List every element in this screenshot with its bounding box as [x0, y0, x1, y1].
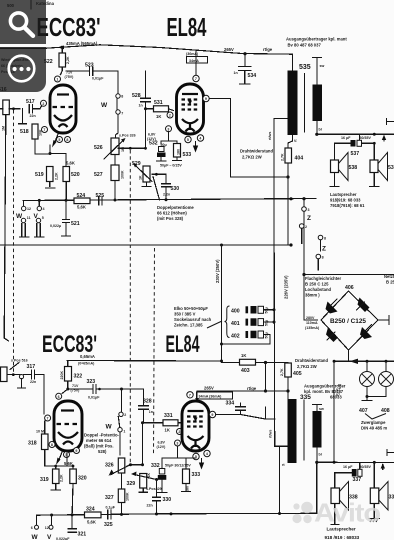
svg-text:8: 8	[66, 138, 68, 142]
svg-text:402: 402	[231, 334, 240, 340]
wire EL84-2 plate feed arrow	[195, 391, 199, 403]
svg-text:321: 321	[78, 532, 87, 538]
resistor 519	[35, 167, 59, 187]
svg-text:Netztr: Netztr	[384, 274, 394, 279]
resistor 527	[94, 165, 125, 200]
svg-text:34mA (36mA): 34mA (36mA)	[199, 395, 223, 399]
wire speaker line bottom y=462.5	[317, 461, 394, 464]
svg-text:4: 4	[43, 207, 45, 211]
svg-text:350 / 385 V: 350 / 385 V	[174, 312, 196, 317]
svg-text:Lochabstand: Lochabstand	[305, 287, 331, 292]
svg-text:50μF – 0/15V: 50μF – 0/15V	[160, 164, 182, 168]
wire 526 wiper node	[118, 147, 147, 150]
svg-text:2,7K: 2,7K	[281, 153, 285, 161]
svg-text:12: 12	[27, 207, 31, 211]
svg-text:1M: 1M	[2, 126, 6, 131]
capacitor C530	[162, 174, 179, 199]
svg-text:12: 12	[45, 526, 49, 530]
svg-text:520: 520	[71, 172, 80, 178]
svg-text:Ausgangsübertrager kpl. mant: Ausgangsübertrager kpl. mant	[286, 37, 347, 42]
svg-text:Zeichn. 17,385: Zeichn. 17,385	[174, 323, 203, 328]
svg-text:405: 405	[293, 371, 302, 377]
svg-text:337: 337	[353, 477, 362, 483]
svg-text:Bv 80 487 68 037: Bv 80 487 68 037	[288, 43, 322, 48]
svg-text:2,2K: 2,2K	[66, 56, 70, 64]
speaker 339 bottom	[369, 462, 394, 522]
svg-text:0,1μF: 0,1μF	[106, 506, 116, 510]
transformer T335 core	[303, 400, 305, 460]
capacitor C401	[231, 318, 276, 327]
svg-text:B250 / C125: B250 / C125	[330, 318, 366, 325]
label 34mA lower boxed	[197, 392, 233, 399]
wire EL84-1 plate feed	[195, 50, 197, 75]
svg-text:W: W	[32, 534, 39, 540]
ECC83-1 cathode arc	[59, 124, 68, 127]
transformer T535 core	[304, 74, 306, 133]
svg-text:2,2n: 2,2n	[163, 193, 170, 197]
svg-text:bl: bl	[319, 128, 322, 132]
main bus wire y=200	[23, 197, 316, 202]
T535 sw terminal	[313, 58, 325, 85]
svg-text:B 250 C 125: B 250 C 125	[305, 282, 329, 287]
arrow up on speaker line	[382, 135, 386, 141]
label 280V rectifier	[305, 316, 320, 330]
svg-text:517: 517	[26, 99, 35, 105]
pin 8 ECC83-1	[65, 137, 71, 143]
svg-text:8: 8	[324, 237, 326, 241]
terminal 12 V bottom	[45, 515, 53, 540]
resistor 520	[63, 161, 80, 201]
capacitor C330	[147, 480, 172, 515]
potentiometer 329	[127, 472, 159, 493]
resistor 319	[40, 466, 64, 490]
svg-text:2: 2	[42, 102, 44, 106]
svg-text:Sockelausruf nach: Sockelausruf nach	[174, 317, 212, 322]
diode D4 lower-right	[360, 325, 372, 340]
label Elko	[174, 306, 222, 328]
svg-text:7: 7	[121, 112, 123, 116]
svg-text:5,6K: 5,6K	[64, 461, 73, 466]
terminal 12 input	[22, 201, 32, 212]
wire 326 node	[129, 463, 143, 466]
pin 2 EL84-1	[167, 112, 173, 118]
svg-text:bl: bl	[319, 453, 322, 457]
svg-text:2: 2	[169, 114, 171, 118]
pin 8 ECC83-2	[49, 442, 55, 448]
svg-text:Ausgangsübertroger: Ausgangsübertroger	[304, 384, 346, 389]
svg-text:2,2K: 2,2K	[60, 474, 64, 482]
svg-text:2,7KΩ 2W: 2,7KΩ 2W	[242, 155, 262, 160]
svg-text:180: 180	[177, 149, 181, 155]
svg-text:317: 317	[27, 364, 36, 370]
T335 bl terminal	[315, 448, 322, 464]
wire AC from mains transformer	[304, 274, 394, 276]
wire plate EL84-1 to transformer	[209, 99, 290, 179]
svg-text:5,6K: 5,6K	[77, 205, 86, 210]
label Flachgleichrichter	[305, 276, 341, 298]
label Zwerglampe	[361, 414, 387, 431]
svg-text:5,6K: 5,6K	[87, 520, 96, 525]
svg-text:1: 1	[123, 430, 125, 434]
resistor 322	[60, 361, 82, 391]
svg-text:527: 527	[94, 172, 103, 178]
resistor 318	[28, 421, 48, 466]
svg-text:334: 334	[226, 401, 235, 407]
svg-text:528: 528	[132, 93, 141, 99]
icon more dots	[9, 56, 35, 82]
svg-text:11: 11	[27, 216, 31, 220]
svg-text:0,022μ: 0,022μ	[50, 224, 61, 228]
wire gang dashed x=154	[154, 248, 155, 455]
resistor 405	[280, 358, 328, 393]
svg-text:5: 5	[187, 138, 189, 142]
svg-text:519: 519	[35, 172, 44, 178]
potentiometer 529	[132, 161, 152, 187]
svg-text:7: 7	[43, 128, 45, 132]
svg-text:220K: 220K	[60, 371, 64, 380]
wire bus y=245	[0, 243, 293, 246]
svg-text:538: 538	[349, 165, 358, 171]
connector stub top right	[387, 119, 394, 125]
capacitor C321	[56, 515, 86, 540]
pin 9 ECC83-2	[74, 448, 80, 454]
ECC83-2 anode bar	[61, 409, 74, 411]
terminal 8b Z right	[316, 254, 324, 270]
speaker 338	[331, 482, 358, 525]
ECC83-2 lower arc	[58, 432, 78, 438]
svg-text:1n: 1n	[234, 71, 238, 75]
svg-text:1K: 1K	[156, 114, 161, 119]
svg-text:265V: 265V	[204, 386, 214, 391]
wire speaker bus bottom y=514	[37, 512, 317, 516]
wire speaker line top y=134	[317, 133, 394, 136]
ECC83-1 heater arrow	[52, 134, 58, 148]
svg-text:Elko 50+50+50μF: Elko 50+50+50μF	[174, 306, 208, 311]
svg-text:2: 2	[124, 413, 126, 417]
EL84-2 anode bar	[188, 410, 204, 412]
label Doppelpotentiometer top	[157, 205, 194, 221]
wire cathode to 520	[50, 154, 66, 168]
resistor 404	[240, 148, 303, 163]
label 36mA EL84	[186, 52, 208, 63]
svg-text:s.Pos 516: s.Pos 516	[11, 359, 28, 363]
ECC83-1 anode bar upper	[57, 93, 69, 95]
wire EL84-1 cathode node	[161, 132, 177, 144]
pin 3 EL84-2	[175, 440, 181, 446]
ECC83-1 grid dashes	[53, 106, 74, 108]
pin 7 ECC83-2	[45, 415, 51, 421]
svg-text:30/35V: 30/35V	[360, 465, 372, 469]
pin 7 EL84-2	[187, 392, 193, 398]
svg-text:ECC83ʹ: ECC83ʹ	[42, 331, 97, 358]
svg-text:meter 66 614: meter 66 614	[86, 438, 112, 443]
switch s.Pos 516	[10, 359, 28, 370]
svg-text:531: 531	[154, 100, 163, 106]
svg-text:9: 9	[205, 97, 207, 101]
ECC83-1 lower triode arc	[54, 115, 72, 121]
resistor 327	[105, 489, 130, 515]
terminal ground input lower	[18, 375, 26, 389]
diode D3 lower-left	[326, 328, 338, 343]
rectifier bottom to lamps	[333, 350, 394, 364]
capacitor C332 electrolytic	[151, 463, 191, 493]
svg-text:406: 406	[345, 285, 354, 291]
svg-text:68033: 68033	[330, 395, 342, 400]
wire EL84-2 plate to transformer	[216, 407, 288, 446]
pin 3 EL84-1	[166, 126, 172, 132]
svg-text:1K: 1K	[147, 473, 151, 478]
tube ECC83-1 envelope	[50, 85, 76, 133]
svg-text:(Baß) (mit Pos.: (Baß) (mit Pos.	[84, 444, 114, 449]
terminal 4 input	[37, 200, 44, 211]
wire x=265.5 down	[264, 363, 267, 393]
pin 6 ECC83-2	[56, 389, 68, 399]
pin 7 EL84-1	[193, 75, 199, 81]
capacitor C528	[132, 71, 151, 148]
resistor 533	[173, 144, 192, 161]
resistor 331	[143, 413, 183, 433]
capacitor C317	[24, 364, 44, 414]
capacitor C523	[66, 63, 118, 94]
capacitor C402	[222, 331, 271, 344]
transformer T335 primary	[288, 399, 297, 463]
svg-text:533: 533	[183, 152, 192, 158]
svg-text:6: 6	[58, 395, 60, 399]
svg-text:Drahtwiderstand: Drahtwiderstand	[295, 358, 328, 363]
wire 403 node y=362.5	[222, 361, 284, 364]
EL84-2 grid rows	[187, 417, 204, 427]
svg-text:Doppel -Potentio-: Doppel -Potentio-	[84, 433, 119, 438]
svg-text:518: 518	[20, 129, 29, 135]
wire 328 column down	[141, 423, 144, 467]
svg-text:Z: Z	[307, 215, 311, 222]
svg-text:W: W	[101, 102, 108, 109]
svg-text:22n: 22n	[30, 114, 36, 118]
svg-text:7918(7919): 68 61: 7918(7919): 68 61	[330, 203, 365, 208]
capacitor C323	[68, 379, 144, 400]
EL84-1 grid rows	[182, 100, 199, 110]
svg-text:1n: 1n	[149, 410, 153, 414]
svg-text:226V (235V): 226V (235V)	[284, 275, 289, 299]
T535 bl terminal	[315, 121, 322, 136]
svg-text:rt/ge: rt/ge	[247, 386, 257, 391]
svg-text:66 612 (Höhen): 66 612 (Höhen)	[157, 211, 187, 216]
capacitor C534	[234, 54, 257, 84]
rectifier right output stub	[378, 316, 389, 325]
svg-text:rt: rt	[282, 463, 285, 467]
svg-text:4: 4	[206, 452, 208, 456]
svg-text:534: 534	[248, 73, 257, 79]
label Ausgangsuebertroger lower	[304, 384, 346, 400]
terminal 5 jack	[35, 216, 45, 237]
switch W lower	[106, 389, 127, 455]
toolbar overlay button menu	[0, 47, 46, 92]
svg-text:404: 404	[295, 156, 304, 162]
wire left shield vertical	[4, 115, 8, 341]
tube EL84-2 envelope	[182, 401, 209, 451]
svg-text:W: W	[106, 424, 113, 431]
svg-text:B 25: B 25	[386, 280, 394, 285]
ECC83-2 heater arrow	[56, 452, 62, 465]
pin 5 EL84-2	[193, 453, 199, 459]
svg-text:918 /919 : 68033: 918 /919 : 68033	[325, 535, 360, 540]
wire speaker return x=316.7	[316, 462, 318, 513]
svg-text:1K: 1K	[139, 175, 143, 180]
lamp 407	[360, 361, 375, 396]
wire primary tap rt/ws	[274, 119, 288, 199]
svg-text:230V (250V): 230V (250V)	[215, 259, 220, 283]
capacitor C525	[96, 193, 105, 205]
svg-text:Doppelpotentiome: Doppelpotentiome	[157, 205, 194, 210]
svg-text:50μ: 50μ	[265, 332, 269, 338]
resistor 524	[74, 193, 90, 210]
svg-text:320: 320	[78, 476, 87, 482]
svg-text:401: 401	[231, 321, 240, 327]
svg-text:521: 521	[71, 221, 80, 227]
label Zweiglampe left remnant	[336, 383, 342, 397]
capacitor C521	[50, 200, 80, 236]
capacitor C400	[231, 306, 276, 315]
EL84-1 cathode arc	[182, 119, 198, 130]
capacitor C325	[104, 506, 116, 529]
wire top stub	[30, 0, 32, 9]
svg-text:528): 528)	[98, 449, 107, 454]
transformer T335 secondary	[313, 411, 322, 448]
transformer T535 primary	[288, 71, 298, 136]
svg-text:5: 5	[42, 216, 44, 220]
svg-text:Flachgleichrichter: Flachgleichrichter	[305, 276, 341, 281]
ECC83-2 cathode arc	[63, 442, 73, 445]
svg-text:Drahtwiderstand: Drahtwiderstand	[240, 149, 273, 154]
svg-text:322: 322	[74, 374, 83, 380]
resistor 522	[44, 47, 70, 74]
pin 9 EL84-2	[209, 411, 215, 417]
svg-text:2: 2	[305, 225, 307, 229]
ECC83-2 grid dashes	[57, 423, 80, 425]
EL84-1 ground arrow	[193, 142, 198, 153]
wire 529 wiper diagonal	[152, 173, 166, 200]
svg-text:(mit Pos 328): (mit Pos 328)	[157, 216, 184, 221]
capacitor C337	[335, 463, 372, 489]
svg-text:407: 407	[359, 408, 368, 414]
wire cathode node lower	[45, 452, 75, 467]
pin 4 EL84-1	[197, 135, 203, 141]
svg-text:22n: 22n	[30, 380, 36, 384]
svg-text:1K: 1K	[241, 353, 246, 358]
wire channel-select dashed x=13.5	[13, 110, 15, 374]
svg-text:100K: 100K	[126, 492, 130, 501]
svg-text:6,8V: 6,8V	[148, 133, 156, 137]
svg-text:318: 318	[28, 441, 37, 447]
pin 4 EL84-2	[204, 450, 210, 456]
resistor 320	[64, 461, 87, 515]
terminal 2 Z	[299, 224, 307, 244]
wire secondary return x=279.5	[278, 446, 281, 515]
svg-text:526: 526	[94, 145, 103, 151]
brace Elko caps	[225, 306, 230, 338]
resistor 324	[85, 507, 102, 525]
svg-text:5: 5	[58, 138, 60, 142]
EL84-2 cathode arc	[188, 436, 204, 447]
diode D1 upper-left	[326, 299, 338, 314]
EL84-1 bottom arc	[186, 129, 195, 132]
resistor 333	[182, 469, 201, 492]
diode D2 upper-right	[357, 298, 370, 313]
svg-text:Avito: Avito	[314, 498, 380, 528]
svg-text:(0=65mA): (0=65mA)	[78, 362, 95, 366]
label Ausgangsuebertrager	[286, 37, 347, 48]
capacitor C532 electrolytic	[149, 141, 167, 162]
svg-text:265V: 265V	[224, 47, 234, 52]
terminal 8 Z right	[318, 235, 326, 252]
svg-text:38mm ): 38mm )	[305, 293, 320, 298]
svg-text:22n: 22n	[147, 504, 153, 508]
svg-text:0,01μF: 0,01μF	[92, 77, 104, 81]
svg-text:539: 539	[388, 165, 394, 171]
svg-text:s.Pos329: s.Pos329	[146, 487, 162, 491]
svg-text:7: 7	[189, 393, 191, 397]
svg-text:1: 1	[56, 78, 58, 82]
T335 sw terminal	[313, 405, 324, 412]
wire 404 column x=288	[288, 135, 293, 245]
svg-text:(36mA): (36mA)	[186, 52, 199, 56]
ground 519	[46, 187, 55, 189]
svg-text:332: 332	[151, 463, 160, 469]
svg-text:2,7KΩ 2W: 2,7KΩ 2W	[297, 364, 317, 369]
speaker 538	[330, 143, 357, 186]
wire gang dashed x=130.5	[129, 150, 131, 464]
capacitor C517	[26, 99, 42, 118]
terminal 6 W bottom	[31, 515, 39, 540]
svg-text:537: 537	[351, 151, 360, 157]
svg-text:EL84: EL84	[167, 12, 207, 42]
svg-text:(12V): (12V)	[157, 445, 167, 449]
wire B+ feed x=304 to rectifier	[302, 199, 317, 320]
switch W top	[101, 94, 123, 138]
svg-text:8: 8	[121, 95, 123, 99]
toolbar overlay button search	[0, 0, 46, 44]
resistor 518	[20, 124, 52, 155]
tube ECC83-2 envelope	[54, 401, 82, 451]
icon search	[10, 13, 33, 36]
svg-text:1n: 1n	[139, 104, 143, 108]
svg-text:327: 327	[105, 495, 114, 501]
pin 1 ECC83-1	[55, 76, 61, 82]
svg-text:9: 9	[75, 449, 77, 453]
terminal 11 jack	[20, 216, 31, 237]
wire 265V line lower y=391	[197, 391, 288, 399]
ground input top	[19, 109, 27, 124]
terminal 3 Z	[302, 199, 311, 222]
svg-text:331: 331	[164, 413, 173, 419]
svg-text:2,2K: 2,2K	[55, 172, 59, 180]
svg-text:326: 326	[105, 463, 114, 469]
svg-text:(75V): (75V)	[65, 75, 75, 79]
connector stub bottom right	[387, 450, 394, 456]
EL84-2 bottom arc	[191, 446, 200, 449]
svg-text:329: 329	[127, 481, 136, 487]
pin 5 ECC83-1	[57, 137, 63, 143]
svg-text:rt: rt	[294, 139, 298, 142]
svg-text:3: 3	[308, 208, 310, 212]
potentiometer 316	[1, 367, 21, 382]
svg-text:(135mA): (135mA)	[305, 326, 320, 330]
svg-text:6,8V: 6,8V	[158, 441, 166, 445]
transformer T535 secondary	[313, 85, 323, 122]
ground lamps	[362, 397, 372, 401]
svg-text:rt/ws: rt/ws	[268, 132, 272, 140]
speaker 539 top	[370, 143, 394, 186]
